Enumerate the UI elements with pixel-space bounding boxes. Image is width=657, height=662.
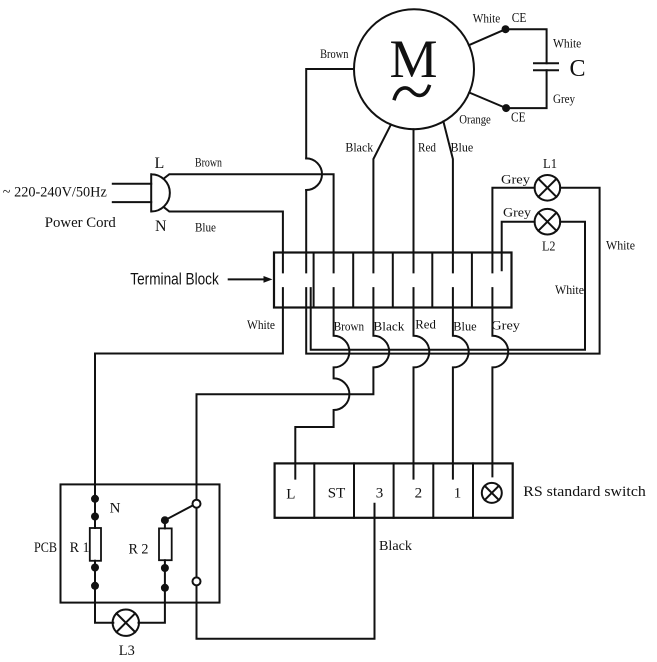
terminal block body [274,253,512,308]
wire capacitor to CE bottom [506,70,546,108]
wire brown below block with hops [295,288,349,479]
svg-text:CE: CE [512,11,527,26]
switch separator 5 [472,463,474,517]
svg-text:L1: L1 [543,157,557,172]
terminal block separator 1 [313,253,315,308]
resistor R1 [90,528,101,561]
svg-text:~ 220-240V/50Hz: ~ 220-240V/50Hz [3,185,107,201]
svg-text:Grey: Grey [553,91,575,106]
wire plug input L [113,183,151,185]
motor ~ symbol [395,87,430,99]
svg-text:Grey: Grey [501,171,531,186]
wire brown hop over L wire [306,158,322,190]
svg-text:L: L [155,155,165,172]
svg-text:Red: Red [415,317,436,332]
wire red below block with hop [414,288,430,479]
resistor R2 [159,528,172,560]
svg-text:RS standard switch: RS standard switch [523,484,646,500]
switch lamp [482,483,502,503]
svg-text:PCB: PCB [34,540,57,556]
PCB box [61,484,220,602]
node CE top dot [502,25,510,33]
svg-text:CE: CE [511,110,526,125]
switch separator 3 [393,463,395,517]
wire white return L1 lower [306,188,599,354]
svg-text:Terminal Block: Terminal Block [130,269,219,288]
svg-text:Brown: Brown [334,318,365,333]
node CE bottom dot [502,104,510,112]
svg-text:3: 3 [376,486,384,502]
svg-text:Black: Black [345,139,373,154]
svg-text:White: White [473,10,501,25]
node dot N1 [91,495,99,503]
wire blue below block with hop [453,288,469,479]
switch block body [275,463,513,517]
svg-text:L: L [286,487,295,503]
node dot R1 bottom 2 [91,582,99,590]
terminal block separator 5 [471,253,473,308]
svg-text:Orange: Orange [459,111,491,126]
svg-text:Red: Red [418,139,436,154]
wire grey below block with hop [492,288,508,476]
svg-text:2: 2 [415,486,423,502]
wire black motor slant [373,125,391,273]
wire white return L2 upper [311,222,585,350]
wire lamp L3 to R2 [139,560,165,623]
lamp L2 [535,209,561,235]
wire blue motor slant [443,122,453,273]
svg-text:ST: ST [328,486,346,502]
wire grey L1 left [492,188,534,273]
svg-text:Blue: Blue [453,318,477,333]
node dot N2 [91,513,99,521]
lamp L1 [535,175,561,201]
wire white below block [95,288,283,528]
svg-text:Black: Black [379,539,412,554]
wire brown motor to terminal block [305,190,307,272]
switch separator 4 [432,463,434,517]
wire R2 top [164,520,166,528]
svg-text:R 1: R 1 [70,540,90,556]
wire brown motor horizontal [306,69,354,158]
svg-text:Blue: Blue [195,220,216,235]
wire red motor [413,129,415,272]
svg-text:White: White [555,282,584,297]
node dot R2 bottom 1 [161,584,169,592]
svg-text:Black: Black [373,318,405,333]
svg-text:C: C [570,56,586,82]
svg-text:Brown: Brown [195,155,222,170]
svg-text:N: N [110,501,121,517]
wire CE top to capacitor [506,29,547,63]
svg-text:R 2: R 2 [129,542,149,558]
arrow to terminal block [229,278,266,280]
svg-text:Brown: Brown [320,46,349,61]
wire grey L2 left [502,222,535,271]
wire plug input N [113,201,151,203]
wire orange motor to CE bottom [469,93,506,109]
power cord plug body [151,174,170,211]
svg-text:L2: L2 [542,239,556,254]
svg-text:White: White [247,317,275,332]
wire R1 bottom to lamp L3 [95,561,113,623]
node dot R1 bottom 1 [91,564,99,572]
svg-text:1: 1 [454,486,462,502]
svg-text:M: M [389,29,437,89]
terminal block separator 2 [352,253,354,308]
svg-text:L3: L3 [119,643,135,659]
switch separator 2 [353,463,355,517]
svg-text:Grey: Grey [491,317,520,332]
svg-text:N: N [155,218,167,235]
lamp L3 [113,610,139,636]
wire L brown horizontal [164,174,334,272]
motor U1 circle [354,9,474,129]
terminal block separator 3 [392,253,394,308]
svg-text:White: White [553,35,582,50]
node dot R2 top [161,516,169,524]
contact circle bottom [193,577,201,585]
contact circle top [193,500,201,508]
node dot R2 bottom 2 [161,564,169,572]
wire N blue horizontal [164,207,283,272]
svg-text:Power Cord: Power Cord [45,215,116,231]
terminal block separator 4 [431,253,433,308]
wire black below block with hop [197,288,390,639]
switch separator 1 [313,463,315,517]
capacitor C plates [534,62,558,64]
svg-text:Blue: Blue [451,139,474,154]
wire white motor to CE top [469,29,506,45]
switch blade to contact [165,505,193,520]
svg-text:Grey: Grey [503,204,532,219]
svg-text:White: White [606,237,635,252]
